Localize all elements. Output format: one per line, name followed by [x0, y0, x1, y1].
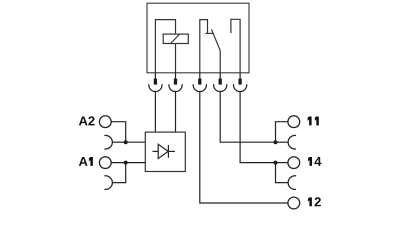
wire A2 socket to junction — [112, 141, 125, 143]
socket arc 14 — [288, 176, 296, 190]
junction node 14 — [274, 161, 278, 165]
terminal pin 3 — [193, 73, 206, 92]
diode V1 cathode lead — [168, 150, 175, 152]
wire node 11 up to circle 11 — [276, 122, 288, 143]
label 11 — [308, 116, 319, 125]
terminal circle A2 — [99, 116, 111, 128]
junction node A2 — [124, 140, 128, 144]
label 14 — [308, 157, 321, 166]
terminal circle 11 — [288, 116, 300, 128]
wire node 11 to socket 11 — [276, 141, 289, 143]
wire pin3 to terminal 12 — [200, 91, 288, 203]
junction node 11 — [274, 140, 278, 144]
label A2 — [79, 116, 95, 125]
wire lever to pin 4 — [219, 51, 221, 73]
wire A2 junction to input box — [126, 141, 146, 143]
wire A2 circle to junction — [111, 122, 125, 143]
diode V1 anode lead — [153, 150, 159, 152]
wire NC fixed contact lead from pin 3 — [200, 20, 208, 73]
contact lever (changeover switch) — [212, 30, 221, 51]
terminal pin 1 — [149, 73, 162, 92]
socket arc A1 — [104, 176, 112, 190]
label 12 — [308, 197, 321, 206]
terminal pin 4 — [214, 73, 227, 92]
wire NO fixed contact lead from pin 5 — [231, 19, 240, 73]
wire A1 circle to input box — [111, 162, 145, 164]
wire node 14 down to socket 14 — [276, 163, 289, 183]
wire pin5 to node 14 — [240, 91, 275, 163]
label A1 — [79, 157, 93, 166]
diode V1 triangle — [158, 144, 168, 158]
NC fixed contact tick — [205, 32, 213, 34]
wire pin2 to input box — [175, 91, 177, 132]
diode V1 cathode bar — [167, 145, 169, 158]
terminal pin 5 — [233, 73, 246, 92]
socket arc A2 — [104, 135, 112, 149]
terminal circle 12 — [288, 197, 300, 209]
wire node 14 to circle 14 — [276, 162, 288, 164]
wire pin1 to input box — [154, 91, 156, 132]
terminal circle A1 — [99, 157, 111, 169]
wire coil loop from pin 1 up and over to coil K1 — [155, 20, 175, 73]
wire pin4 to node 11 — [220, 91, 275, 142]
junction node A1 — [124, 161, 128, 165]
terminal circle 14 — [288, 157, 300, 169]
relay coil K1 — [163, 34, 188, 43]
terminal pin 2 — [169, 73, 182, 92]
wire coil bottom to pin 2 — [175, 44, 177, 73]
socket arc 11 — [288, 135, 296, 149]
input protection box U1 — [145, 132, 185, 171]
relay module outline box — [147, 3, 249, 73]
coil slash — [171, 34, 180, 43]
wire A1 junction down to socket — [112, 163, 125, 183]
